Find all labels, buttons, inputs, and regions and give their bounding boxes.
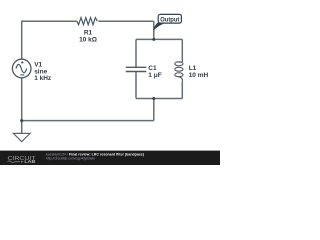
svg-text:LAB: LAB — [24, 159, 35, 164]
svg-text:1 μF: 1 μF — [148, 72, 161, 79]
footer logo wave — [8, 161, 21, 163]
wire R1 right to output corner — [98, 20, 153, 22]
output flag box — [158, 14, 181, 23]
resistor R1 — [77, 18, 98, 25]
ground — [13, 133, 30, 141]
svg-text:10 mH: 10 mH — [189, 72, 209, 79]
capacitor C1 — [126, 67, 147, 71]
svg-text:10 kΩ: 10 kΩ — [79, 37, 97, 44]
wire bottom return rail — [22, 120, 154, 122]
node at tank top — [152, 38, 155, 41]
wire tank left upper (to C1 top plate) — [135, 39, 137, 67]
node at tank bottom — [152, 97, 155, 100]
wire V1 top to corner and top rail to R1 — [22, 21, 77, 59]
svg-text:Output: Output — [160, 16, 180, 23]
wire tank right upper (to L1 top) — [181, 39, 183, 59]
wire tank bottom rail — [136, 98, 182, 100]
footer bar — [0, 151, 220, 165]
footer logo LAB — [21, 161, 23, 163]
wire V1 bottom to ground node — [21, 78, 23, 121]
wire ground stub — [21, 121, 23, 134]
wire tank right lower (from L1 bottom) — [181, 81, 183, 98]
output flag tail — [153, 23, 166, 31]
wire tank left lower (from C1 bottom plate) — [135, 72, 137, 99]
node at ground junction — [20, 119, 23, 122]
wire vertical down from output corner to tank top node — [153, 21, 155, 39]
wire down from tank bottom node — [153, 99, 155, 121]
wire tank top rail — [136, 38, 182, 40]
inductor L1 — [175, 60, 183, 82]
voltage source V1 — [12, 59, 31, 78]
svg-text:http://circuitlab.com/cqp4dy63: http://circuitlab.com/cqp4dy63axk — [46, 156, 95, 161]
svg-text:1 kHz: 1 kHz — [34, 75, 52, 82]
